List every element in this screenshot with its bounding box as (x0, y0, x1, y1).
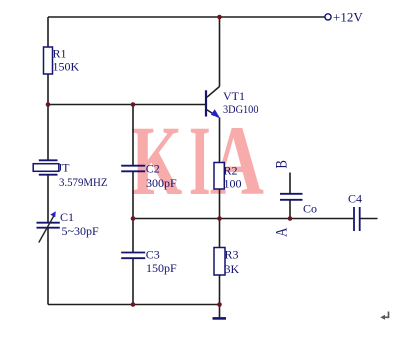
svg-text:JT: JT (58, 161, 71, 175)
svg-text:3K: 3K (225, 262, 240, 276)
wire bottom rail (48, 304, 220, 306)
ground (213, 317, 227, 320)
svg-text:100: 100 (224, 177, 242, 191)
svg-text:R3: R3 (225, 248, 239, 262)
resistor R3 (214, 248, 240, 277)
wire C6 to mid rail (289, 201, 291, 219)
wire R3 to bottom rail (219, 275, 221, 305)
svg-text:C3: C3 (146, 248, 160, 262)
svg-text:C1: C1 (60, 210, 74, 224)
svg-text:A: A (210, 106, 264, 217)
wire node B stub (289, 173, 291, 194)
wire R2 to mid rail (219, 189, 221, 248)
transistor VT1 (206, 87, 259, 119)
power terminal +12V (325, 10, 363, 25)
resistor R2 (214, 163, 242, 191)
wire mid rail (133, 218, 353, 220)
svg-text:+12V: +12V (333, 10, 363, 25)
wire left vertical upper (R1 branch) (47, 17, 49, 160)
wire right of C4 (361, 218, 378, 220)
resistor R1 (44, 47, 80, 75)
junction C2 / base row (131, 102, 136, 107)
junction C2-C3 / mid rail (131, 216, 136, 221)
wire C2 branch upper (132, 105, 134, 166)
capacitor C4 (348, 192, 362, 232)
crystal JT (33, 160, 107, 189)
junction C3 / bottom rail (131, 302, 136, 307)
svg-text:150K: 150K (53, 60, 80, 74)
capacitor C6 (280, 194, 317, 216)
capacitor C1 (variable) (37, 210, 99, 243)
wire top rail (48, 16, 325, 18)
svg-text:3.579MHZ: 3.579MHZ (59, 175, 108, 189)
watermark KIA (131, 106, 264, 217)
wire ground stem (219, 305, 221, 318)
svg-text:5~30pF: 5~30pF (62, 224, 99, 238)
svg-text:C2: C2 (146, 162, 160, 176)
junction R3 / ground (217, 302, 222, 307)
svg-text:300pF: 300pF (146, 176, 177, 190)
svg-text:3DG100: 3DG100 (223, 102, 259, 116)
svg-text:VT1: VT1 (223, 89, 245, 103)
svg-text:Co: Co (303, 202, 317, 216)
capacitor C3 (121, 248, 177, 276)
svg-text:R2: R2 (224, 164, 238, 178)
svg-text:C4: C4 (348, 192, 362, 206)
svg-text:I: I (189, 106, 211, 216)
svg-text:A: A (273, 227, 291, 237)
junction top rail / collector (217, 15, 222, 20)
svg-text:R1: R1 (53, 47, 67, 61)
wire C2 to C3 (132, 172, 134, 252)
svg-text:B: B (273, 160, 291, 169)
return mark (383, 312, 389, 318)
svg-text:150pF: 150pF (146, 261, 177, 275)
junction R2 / mid rail (217, 216, 222, 221)
capacitor C2 (121, 162, 177, 191)
junction R1 / base row (46, 102, 51, 107)
node A junction (288, 216, 293, 221)
wire left vertical below C1 (47, 228, 49, 304)
wire left vertical crystal to C1 (47, 176, 49, 223)
wire below C3 (132, 259, 134, 305)
wire emitter vertical to R2 (219, 118, 221, 163)
wire base row (48, 104, 206, 106)
wire collector vertical (219, 17, 221, 87)
